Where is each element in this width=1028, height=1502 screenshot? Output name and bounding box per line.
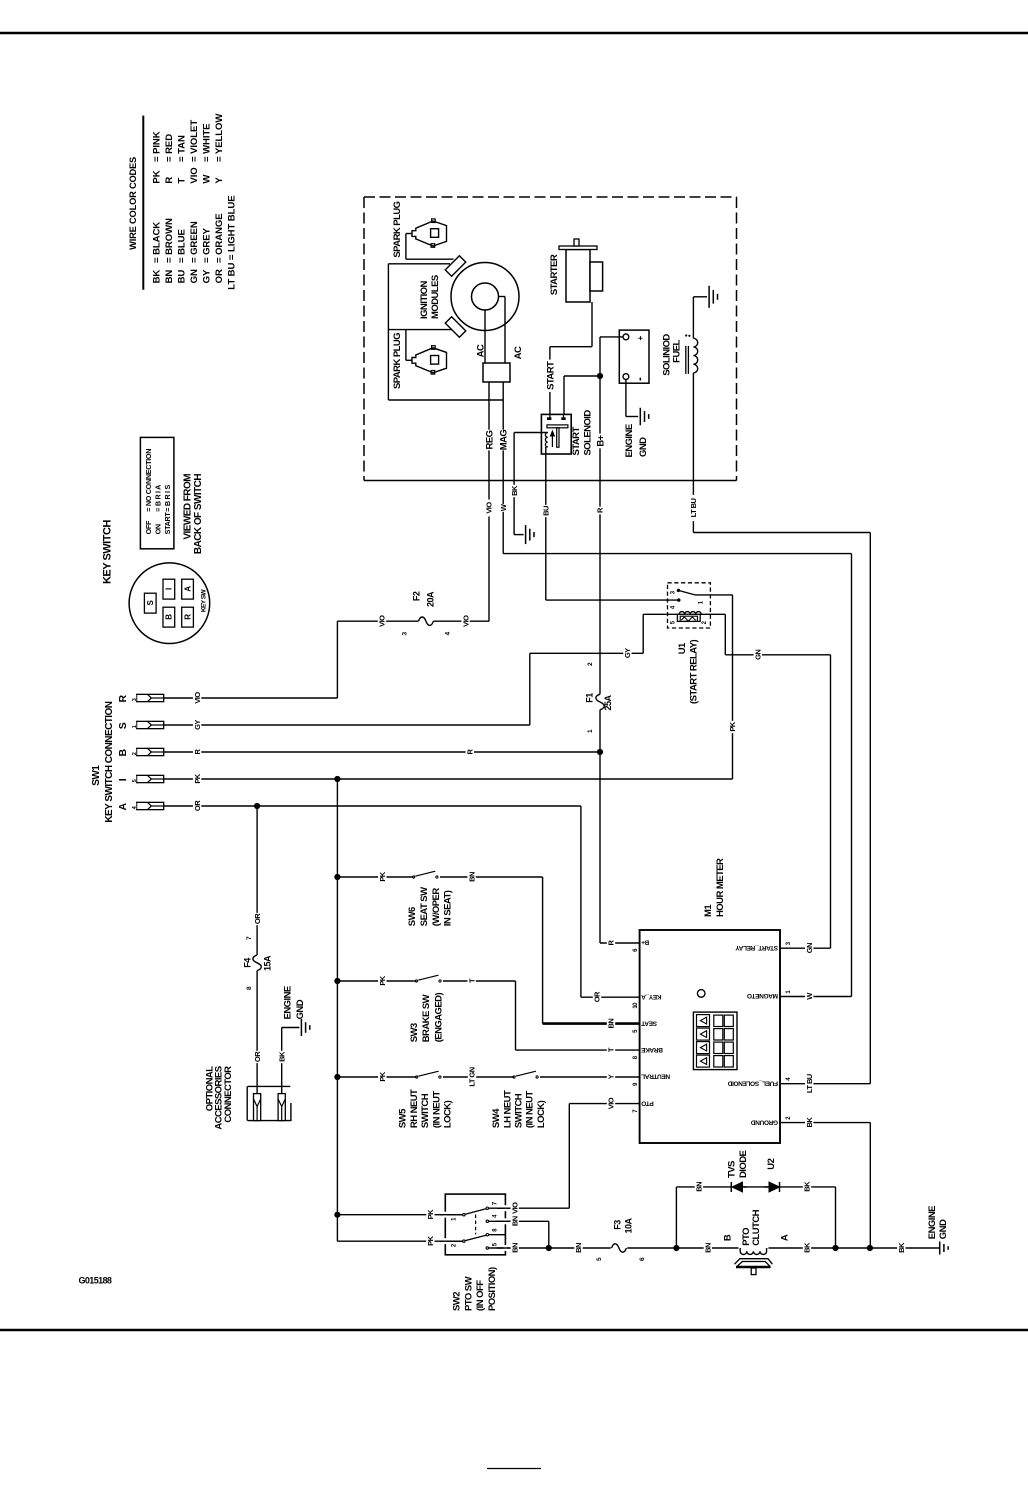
svg-text:AC: AC bbox=[475, 344, 486, 357]
svg-text:VIO: VIO bbox=[193, 692, 202, 704]
svg-text:OR: OR bbox=[193, 800, 202, 811]
svg-text:U1: U1 bbox=[677, 642, 688, 654]
svg-text:BU: BU bbox=[542, 506, 551, 516]
svg-text:PK: PK bbox=[152, 170, 163, 183]
svg-text:SWITCH: SWITCH bbox=[514, 1093, 525, 1128]
svg-text:F3: F3 bbox=[613, 1220, 623, 1230]
svg-text:NEUTRAL: NEUTRAL bbox=[641, 1073, 670, 1080]
svg-text:ON: ON bbox=[153, 524, 162, 534]
svg-text:BN: BN bbox=[467, 872, 476, 882]
svg-text:VIO: VIO bbox=[461, 615, 470, 627]
svg-text:+: + bbox=[636, 336, 645, 341]
svg-text:ENGINE: ENGINE bbox=[624, 424, 635, 457]
svg-text:START: START bbox=[163, 512, 172, 535]
svg-text:G015188: G015188 bbox=[79, 1276, 112, 1286]
svg-text:SW4: SW4 bbox=[491, 1108, 502, 1128]
svg-text:GY: GY bbox=[623, 648, 632, 658]
svg-text:= TAN: = TAN bbox=[177, 135, 188, 162]
svg-text:R: R bbox=[117, 695, 129, 703]
svg-text:BN: BN bbox=[164, 270, 175, 284]
svg-text:HOUR METER: HOUR METER bbox=[715, 858, 726, 917]
svg-text:BU: BU bbox=[177, 270, 188, 284]
svg-text:MAGNETO: MAGNETO bbox=[747, 992, 778, 999]
svg-text:OR: OR bbox=[253, 1051, 262, 1062]
svg-text:BN: BN bbox=[510, 1243, 519, 1253]
svg-text:Y: Y bbox=[607, 1074, 616, 1079]
svg-text:VIO: VIO bbox=[607, 1097, 616, 1109]
svg-text:SW5: SW5 bbox=[398, 1108, 409, 1128]
svg-text:= ORANGE: = ORANGE bbox=[214, 213, 225, 263]
svg-text:BACK OF SWITCH: BACK OF SWITCH bbox=[193, 474, 204, 554]
svg-text:Y: Y bbox=[214, 177, 225, 184]
svg-text:= B R I S: = B R I S bbox=[163, 485, 172, 512]
svg-text:GND: GND bbox=[938, 1219, 949, 1239]
svg-text:(IN OFF: (IN OFF bbox=[475, 1280, 486, 1311]
svg-text:VIO: VIO bbox=[485, 502, 494, 514]
svg-text:GROUND: GROUND bbox=[751, 1118, 778, 1125]
svg-text:GY: GY bbox=[193, 720, 202, 730]
svg-text:= BROWN: = BROWN bbox=[164, 218, 175, 263]
svg-text:A: A bbox=[779, 1234, 790, 1241]
svg-text:VIO: VIO bbox=[378, 615, 387, 627]
svg-text:PK: PK bbox=[426, 1235, 435, 1245]
svg-text:LT GN: LT GN bbox=[468, 1067, 477, 1086]
svg-text:PK: PK bbox=[426, 1209, 435, 1219]
svg-text:TVS: TVS bbox=[726, 1161, 737, 1178]
svg-text:A: A bbox=[183, 586, 192, 592]
svg-text:PTO SW: PTO SW bbox=[463, 1276, 474, 1311]
svg-text:SEAT SW: SEAT SW bbox=[419, 887, 430, 926]
svg-text:B+: B+ bbox=[595, 434, 606, 446]
svg-text:BK: BK bbox=[897, 1242, 906, 1253]
svg-text:F4: F4 bbox=[243, 958, 253, 968]
svg-text:AC: AC bbox=[513, 346, 524, 359]
svg-text:GND: GND bbox=[638, 437, 649, 457]
svg-text:(START RELAY): (START RELAY) bbox=[689, 640, 700, 704]
svg-text:15A: 15A bbox=[263, 955, 273, 971]
svg-text:R: R bbox=[183, 614, 192, 620]
svg-text:T: T bbox=[177, 178, 188, 184]
svg-text:VIO: VIO bbox=[189, 167, 200, 184]
svg-text:SW3: SW3 bbox=[409, 1023, 420, 1042]
svg-text:BN: BN bbox=[510, 1216, 519, 1226]
svg-text:SW2: SW2 bbox=[451, 1292, 462, 1311]
svg-text:A: A bbox=[117, 803, 129, 811]
svg-text:MODULES: MODULES bbox=[430, 275, 441, 319]
svg-text:KEY SWITCH CONNECTION: KEY SWITCH CONNECTION bbox=[104, 701, 115, 822]
svg-text:FUEL: FUEL bbox=[672, 339, 683, 362]
svg-text:= BLACK: = BLACK bbox=[152, 222, 163, 263]
svg-text:BRAKE SW: BRAKE SW bbox=[421, 994, 432, 1042]
svg-text:= GREEN: = GREEN bbox=[189, 221, 200, 263]
svg-text:LT BU = LIGHT BLUE: LT BU = LIGHT BLUE bbox=[227, 195, 238, 290]
svg-text:GN: GN bbox=[189, 269, 200, 283]
svg-text:SEAT: SEAT bbox=[641, 1019, 657, 1026]
svg-text:VIO: VIO bbox=[510, 1202, 519, 1214]
svg-text:GN: GN bbox=[805, 943, 814, 953]
svg-text:10A: 10A bbox=[624, 1218, 634, 1234]
svg-text:BK: BK bbox=[277, 1051, 286, 1062]
svg-text:SWITCH: SWITCH bbox=[420, 1093, 431, 1128]
svg-text:RH NEUT: RH NEUT bbox=[409, 1089, 420, 1128]
svg-text:CLUTCH: CLUTCH bbox=[751, 1209, 762, 1245]
svg-text:PK: PK bbox=[378, 871, 387, 881]
svg-text:LOCK): LOCK) bbox=[536, 1100, 547, 1128]
svg-text:START: START bbox=[545, 361, 556, 390]
svg-text:B+: B+ bbox=[641, 939, 649, 946]
svg-text:BN: BN bbox=[695, 1182, 704, 1192]
svg-text:= RED: = RED bbox=[164, 134, 175, 162]
svg-text:LT BU: LT BU bbox=[689, 498, 698, 517]
svg-text:SOLENOID: SOLENOID bbox=[582, 410, 593, 456]
svg-text:DIODE: DIODE bbox=[738, 1150, 749, 1178]
svg-text:SW1: SW1 bbox=[91, 765, 102, 786]
svg-text:(W/OPER: (W/OPER bbox=[431, 888, 442, 927]
svg-text:IGNITION: IGNITION bbox=[419, 280, 430, 319]
svg-text:START: START bbox=[571, 427, 582, 456]
svg-text:20A: 20A bbox=[426, 591, 436, 607]
svg-text:F2: F2 bbox=[412, 591, 422, 601]
svg-text:= NO CONNECTION: = NO CONNECTION bbox=[144, 449, 153, 512]
svg-text:W: W bbox=[202, 174, 213, 184]
svg-text:WIRE COLOR CODES: WIRE COLOR CODES bbox=[128, 157, 138, 250]
svg-text:25A: 25A bbox=[603, 695, 613, 711]
svg-text:= B R I A: = B R I A bbox=[153, 485, 162, 512]
svg-text:B: B bbox=[165, 614, 174, 620]
svg-text:= VIOLET: = VIOLET bbox=[189, 120, 200, 162]
svg-text:= YELLOW: = YELLOW bbox=[214, 113, 225, 162]
svg-text:BK: BK bbox=[803, 1181, 812, 1192]
svg-text:CONNECTOR: CONNECTOR bbox=[223, 1066, 234, 1123]
svg-text:OR: OR bbox=[593, 991, 602, 1002]
svg-text:ENGINE: ENGINE bbox=[282, 986, 293, 1019]
svg-text:KEY SWITCH: KEY SWITCH bbox=[101, 520, 113, 584]
svg-text:BN: BN bbox=[704, 1243, 713, 1253]
svg-text:OR: OR bbox=[214, 269, 225, 283]
svg-text:(IN NEUT: (IN NEUT bbox=[525, 1091, 536, 1129]
svg-text:ENGINE: ENGINE bbox=[927, 1206, 938, 1239]
svg-text:START_RELAY: START_RELAY bbox=[735, 944, 778, 951]
svg-text:LOCK): LOCK) bbox=[443, 1100, 454, 1128]
svg-text:MAG: MAG bbox=[499, 430, 510, 451]
svg-text:PK: PK bbox=[378, 1071, 387, 1081]
svg-text:BK: BK bbox=[510, 485, 519, 496]
svg-text:OFF: OFF bbox=[144, 520, 153, 534]
svg-text:B: B bbox=[723, 1234, 734, 1241]
svg-text:SPARK PLUG: SPARK PLUG bbox=[392, 201, 403, 257]
svg-text:SPARK PLUG: SPARK PLUG bbox=[392, 333, 403, 389]
svg-text:= BLUE: = BLUE bbox=[177, 229, 188, 263]
svg-text:BK: BK bbox=[803, 1242, 812, 1253]
svg-text:GY: GY bbox=[202, 269, 213, 283]
svg-text:R: R bbox=[164, 177, 175, 184]
svg-text:= WHITE: = WHITE bbox=[202, 123, 213, 162]
svg-text:BK: BK bbox=[152, 270, 163, 284]
svg-text:FUEL_SOLENOID: FUEL_SOLENOID bbox=[727, 1079, 778, 1086]
svg-text:(ENGAGED): (ENGAGED) bbox=[434, 993, 445, 1043]
svg-text:PK: PK bbox=[378, 975, 387, 985]
svg-text:GN: GN bbox=[754, 650, 763, 660]
svg-text:S: S bbox=[117, 722, 129, 729]
svg-text:BN: BN bbox=[607, 1019, 616, 1029]
svg-text:(IN NEUT: (IN NEUT bbox=[431, 1091, 442, 1129]
svg-text:M1: M1 bbox=[703, 904, 714, 917]
svg-text:BK: BK bbox=[805, 1117, 814, 1128]
svg-text:PK: PK bbox=[193, 773, 202, 783]
svg-text:REG: REG bbox=[484, 430, 495, 449]
svg-text:BRAKE: BRAKE bbox=[640, 1046, 662, 1053]
svg-text:GND: GND bbox=[295, 999, 306, 1019]
svg-text:LH NEUT: LH NEUT bbox=[502, 1090, 513, 1128]
svg-text:BN: BN bbox=[574, 1243, 583, 1253]
svg-text:SOLINIOD: SOLINIOD bbox=[661, 334, 672, 376]
svg-text:F1: F1 bbox=[585, 693, 595, 703]
svg-text:POSITION): POSITION) bbox=[487, 1267, 498, 1311]
svg-text:B: B bbox=[117, 749, 129, 757]
svg-text:PK: PK bbox=[728, 721, 737, 731]
svg-text:SW6: SW6 bbox=[407, 907, 418, 926]
svg-text:PTO: PTO bbox=[641, 1099, 653, 1106]
svg-text:= PINK: = PINK bbox=[152, 131, 163, 162]
svg-text:KEY_A: KEY_A bbox=[641, 993, 662, 1000]
svg-text:LT BU: LT BU bbox=[805, 1074, 814, 1093]
svg-text:VIEWED FROM: VIEWED FROM bbox=[183, 474, 194, 540]
svg-text:IN SEAT): IN SEAT) bbox=[443, 890, 454, 926]
svg-text:= GREY: = GREY bbox=[202, 227, 213, 263]
svg-text:U2: U2 bbox=[766, 1158, 777, 1169]
svg-text:STARTER: STARTER bbox=[549, 254, 560, 295]
svg-text:KEY SW: KEY SW bbox=[200, 588, 207, 612]
svg-text:OR: OR bbox=[253, 913, 262, 924]
